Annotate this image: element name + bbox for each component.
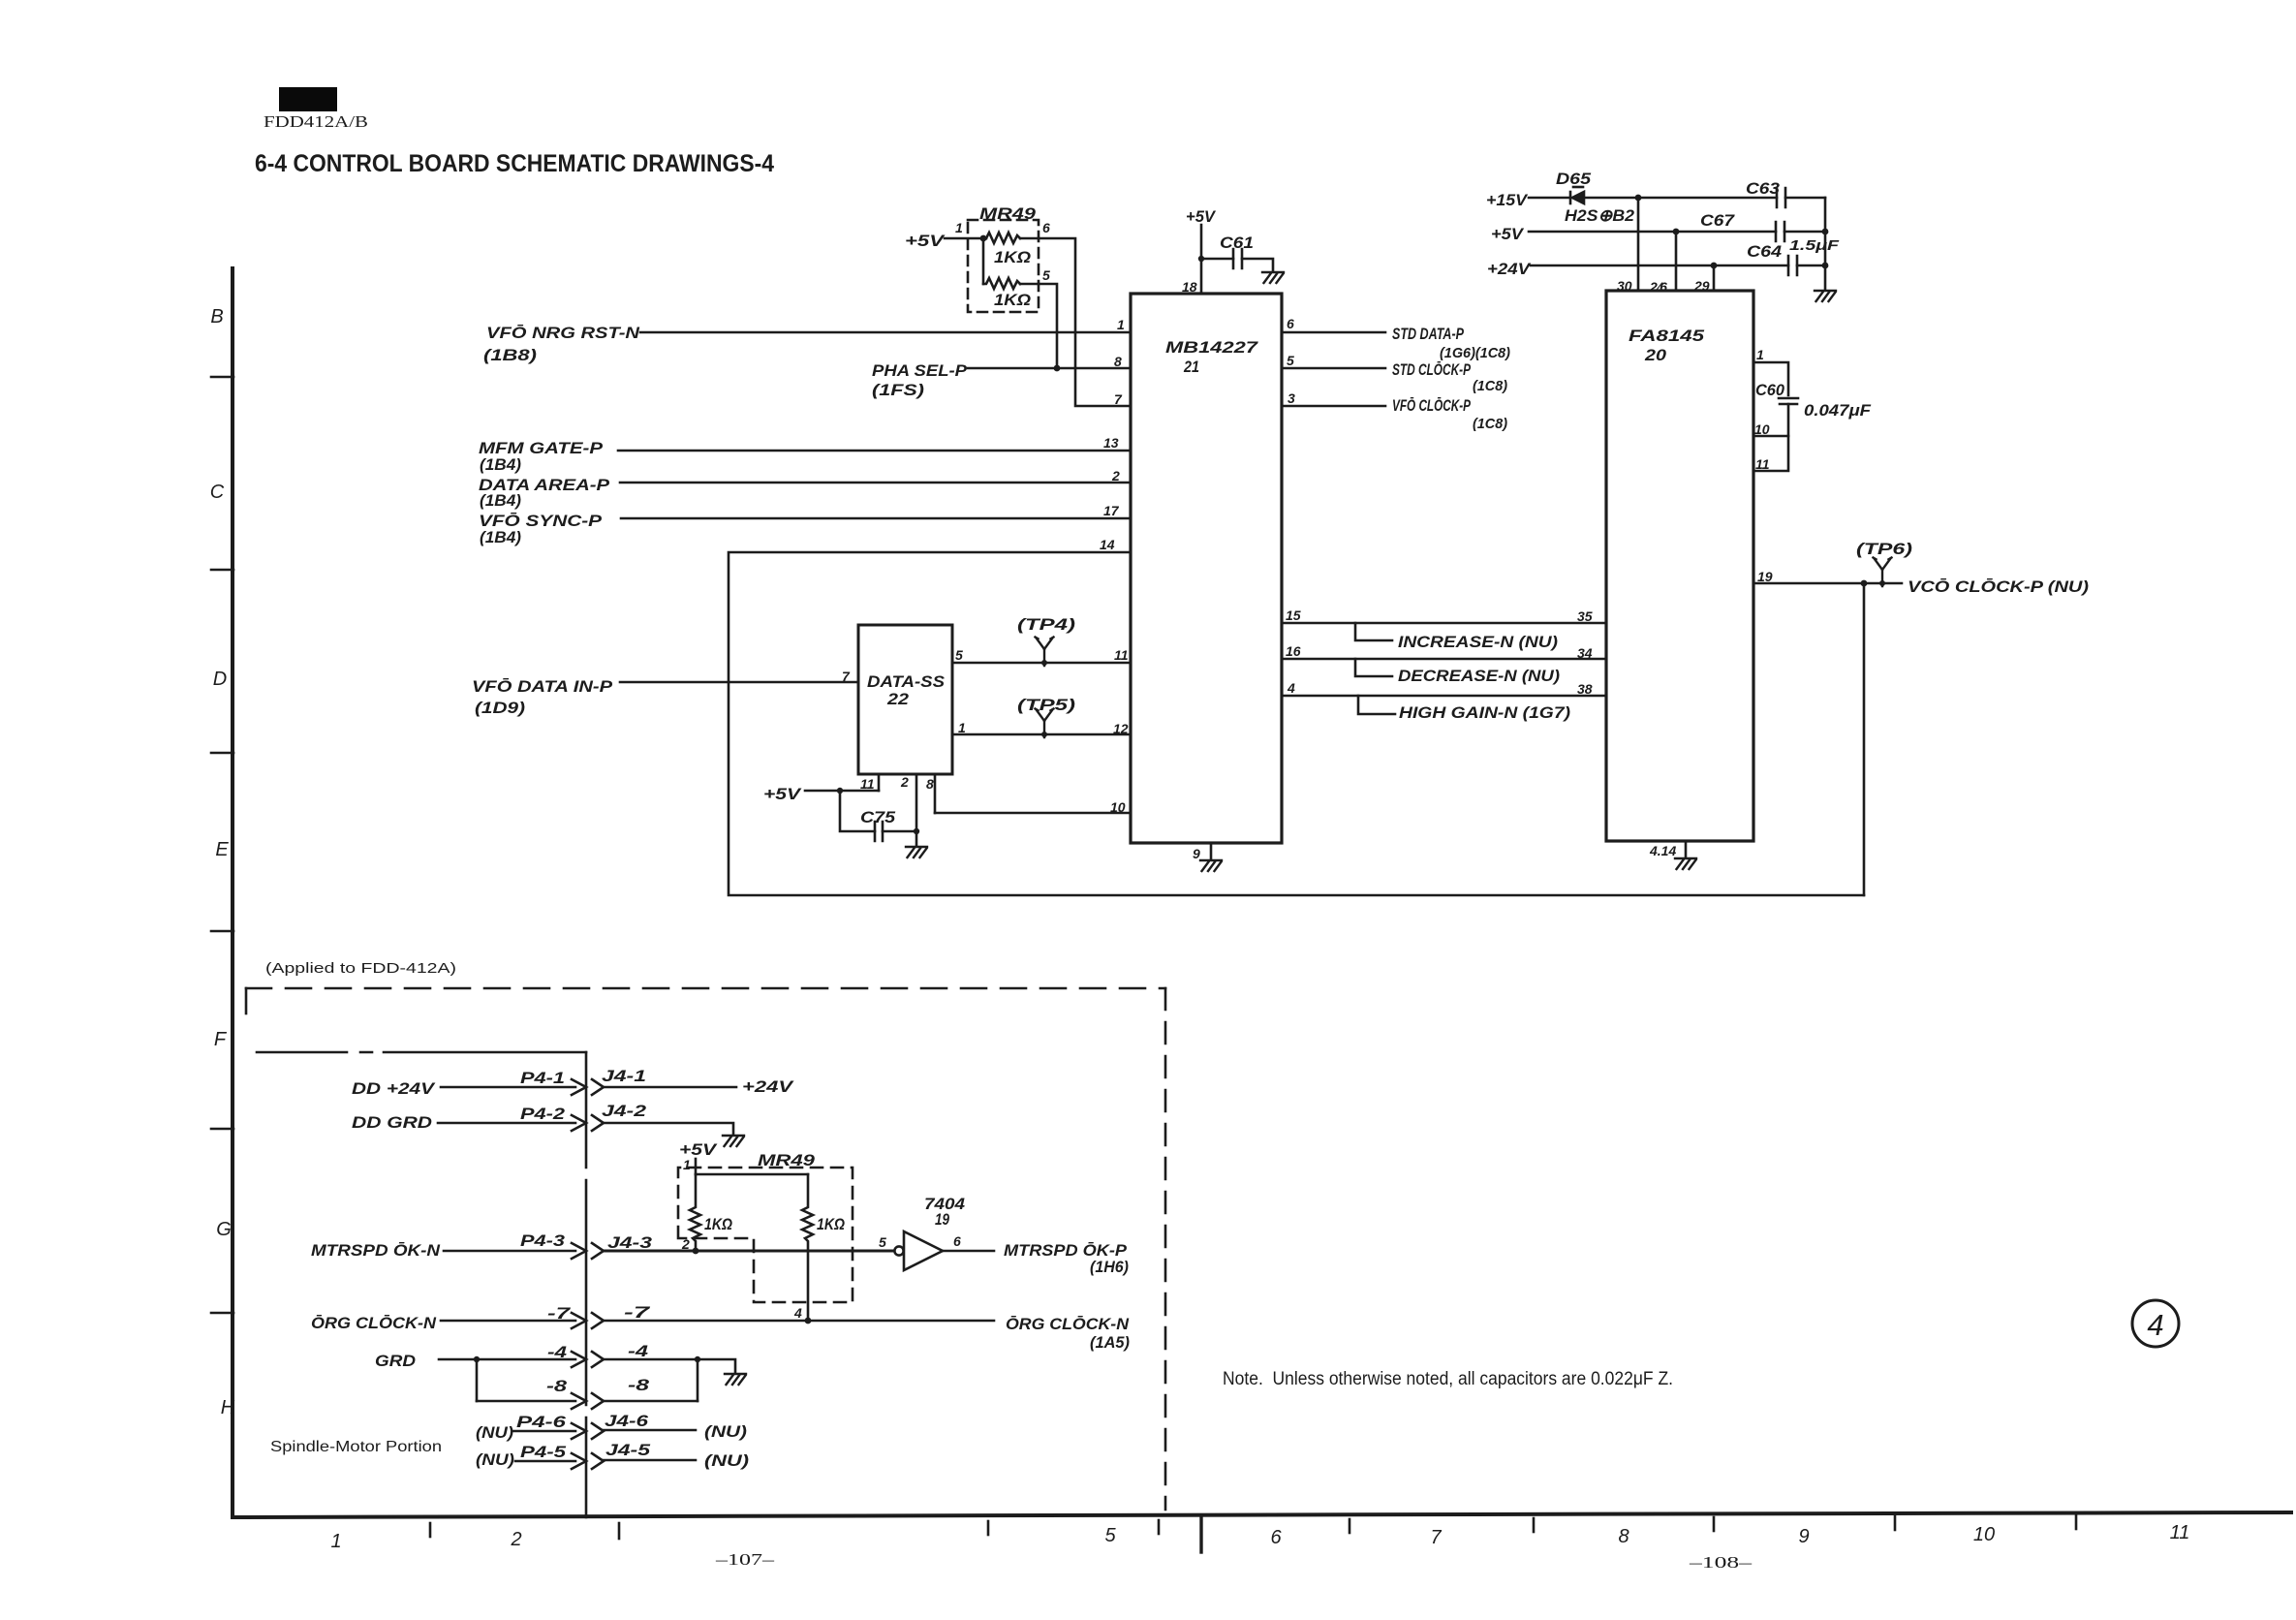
arrowhead P4-1 [572,1079,586,1095]
svg-text:11: 11 [1755,456,1770,472]
svg-text:5: 5 [1287,353,1294,368]
ground at FA8145 [1675,858,1696,869]
svg-text:C67: C67 [1700,211,1736,230]
svg-text:1.5μF: 1.5μF [1789,237,1840,254]
svg-text:INCREASE-N (NU): INCREASE-N (NU) [1398,633,1558,651]
svg-text:B: B [210,306,223,327]
chevron J4-6 [592,1423,604,1439]
chevron J4-2 [592,1115,604,1131]
svg-text:(NU): (NU) [476,1423,513,1442]
ground at C61 [1262,272,1284,283]
wire junction drop to R2 [982,238,985,284]
svg-text:6: 6 [953,1233,961,1249]
svg-text:+15V: +15V [1486,191,1529,209]
left border tick 1 [211,376,233,379]
svg-text:16: 16 [1286,643,1301,659]
svg-text:-7: -7 [624,1303,652,1322]
svg-text:1: 1 [955,220,963,235]
chain boundary line at F [257,1051,586,1054]
wire -8 row J side [604,1400,698,1403]
wire VFO DATA IN-P to DATA-SS pin 7 [620,681,858,684]
svg-text:10: 10 [1754,421,1770,437]
resistor network MR49 (top) dashed outline [968,220,1039,312]
resistor R3 1K (left, vertical) [690,1174,700,1251]
DATA-SS pin 8 stub [934,774,937,813]
arrowhead -8 [572,1393,586,1409]
junction dot C61 tap [1198,256,1204,262]
junction dot pin 2/6 [1673,229,1680,235]
bottom border tick f [1533,1518,1536,1532]
svg-text:1: 1 [1756,347,1764,362]
svg-text:6: 6 [1042,220,1050,235]
arrowhead P4-6 [572,1423,586,1439]
wire pin15 to FA8145 pin35 [1282,622,1606,625]
svg-text:DECREASE-N (NU): DECREASE-N (NU) [1398,667,1560,685]
svg-text:G: G [216,1219,232,1240]
svg-text:(NU): (NU) [704,1422,747,1441]
capacitor C61 plates [1233,249,1242,268]
test point TP6 [1874,558,1892,587]
wire +5V to pin 18 [1200,225,1203,294]
inverter input bubble [894,1246,903,1255]
junction dot +5V/C75 [837,788,843,794]
resistor R1 1K (top, horizontal) [986,233,1020,243]
chevron J4-3 [592,1243,604,1259]
svg-text:E: E [215,839,229,860]
connector interface line vertical [585,1052,588,1517]
svg-text:GRD: GRD [375,1352,416,1370]
junction dot TP6 [1879,580,1885,586]
svg-text:-8: -8 [546,1377,568,1395]
capacitor C61 wire [1201,259,1273,270]
diode D65 cathode bar [1569,192,1572,203]
svg-text:4: 4 [1287,680,1295,696]
svg-text:1: 1 [330,1531,341,1552]
wire DATA-SS pin 1 to MB pin 12 [952,733,1131,736]
svg-text:(TP5): (TP5) [1017,696,1075,714]
svg-text:(1C8): (1C8) [1473,378,1507,394]
diode polarity tick [1573,186,1583,189]
arrowhead -7 [572,1313,586,1328]
ground at C75 [906,847,927,857]
bottom border tick e [1349,1519,1351,1533]
svg-text:H2S⊕B2: H2S⊕B2 [1565,206,1635,225]
svg-text:FDD412A/B: FDD412A/B [264,112,368,131]
svg-text:C61: C61 [1220,234,1254,252]
wire DD +24V row P side [441,1086,575,1089]
svg-text:C64: C64 [1747,242,1783,261]
bottom border tick a [429,1523,432,1537]
svg-text:9: 9 [1798,1526,1809,1547]
svg-text:6: 6 [1287,316,1294,331]
svg-text:(1B4): (1B4) [480,455,521,474]
wire resistor R2 to pin 5 [1020,283,1039,286]
wire GRD row P side [439,1358,575,1361]
svg-text:ŌRG CLŌCK-N: ŌRG CLŌCK-N [1006,1315,1130,1333]
wire STD CLOCK-P from pin 5 [1282,367,1385,370]
svg-text:9: 9 [1193,846,1200,861]
dashed enclosure top edge [246,987,1165,990]
ground at J4-2 [723,1136,744,1146]
svg-text:(1B4): (1B4) [480,528,521,546]
wire -4 row J side [604,1359,735,1372]
svg-text:20: 20 [1644,346,1667,364]
svg-text:MR49: MR49 [758,1151,816,1169]
left border tick 2 [211,569,233,572]
wire P4-5 row P side [515,1460,575,1463]
svg-text:C63: C63 [1746,179,1781,198]
ground at right bus [1815,291,1836,301]
svg-text:8: 8 [926,776,934,792]
bottom border tick c [987,1521,990,1535]
wire J4-2 to ground [604,1123,733,1134]
test point TP5 [1036,709,1054,738]
junction dot J side branch [695,1356,700,1362]
bottom border tick i [2075,1515,2078,1529]
wire MTRSPD row P side [444,1250,575,1253]
svg-text:C: C [210,482,225,503]
svg-text:MTRSPD ŌK-N: MTRSPD ŌK-N [311,1241,441,1260]
dashed enclosure right edge [1164,988,1167,1510]
svg-text:P4-6: P4-6 [516,1413,567,1431]
svg-text:4: 4 [793,1305,802,1321]
svg-text:STD CLŌCK-P: STD CLŌCK-P [1392,360,1471,379]
resistor R4 1K (right, vertical) [802,1174,813,1321]
svg-text:VCŌ CLŌCK-P (NU): VCŌ CLŌCK-P (NU) [1908,577,2089,596]
page split divider [1199,1516,1202,1552]
svg-text:13: 13 [1103,435,1119,451]
bottom border tick g [1713,1517,1716,1531]
test point TP4 [1036,638,1054,667]
svg-text:21: 21 [1183,358,1199,376]
svg-text:P4-1: P4-1 [520,1069,565,1087]
svg-text:VFŌ CLŌCK-P: VFŌ CLŌCK-P [1392,396,1471,415]
arrowhead P4-3 [572,1243,586,1259]
svg-text:J4-2: J4-2 [602,1102,647,1120]
svg-text:(TP4): (TP4) [1017,615,1075,634]
wire VFO CLOCK-P from pin 3 [1282,405,1385,408]
junction dot at pin19 wire [1861,580,1868,587]
wire DD GRD row P side [438,1122,575,1125]
svg-text:5: 5 [879,1234,886,1250]
svg-text:VFŌ DATA IN-P: VFŌ DATA IN-P [472,677,613,696]
wire pin 19 to VCO CLOCK-P [1753,582,1902,585]
wire pin 6 net to MB14227 pin 7 [1039,238,1131,406]
sheet number circle [2132,1300,2179,1347]
svg-text:(1H6): (1H6) [1090,1258,1129,1276]
wire +5V down to C75 [840,791,916,831]
arrowhead -4 [572,1352,586,1367]
wire MFM GATE-P to MB14227 pin 13 [618,450,1131,452]
wire ORG row P side [441,1320,575,1323]
svg-text:19: 19 [935,1210,949,1229]
wire pin 8 to MB pin 10 [935,812,1131,815]
chevron -7 [592,1313,604,1328]
svg-text:-8: -8 [628,1376,650,1394]
svg-text:DD +24V: DD +24V [352,1079,436,1098]
wire pin 10 loop to pin 11 [1753,436,1788,471]
svg-text:–107–: –107– [715,1550,775,1569]
svg-text:+24V: +24V [1487,260,1532,278]
right bus vertical to ground [1824,198,1827,289]
svg-text:H: H [221,1397,235,1418]
svg-text:(1B8): (1B8) [483,346,537,364]
svg-text:0.047μF: 0.047μF [1804,401,1872,420]
svg-text:11: 11 [2170,1522,2190,1543]
svg-text:1: 1 [958,720,966,735]
svg-text:11: 11 [860,776,875,792]
svg-text:8: 8 [1114,354,1122,369]
HIGH GAIN-N stub [1358,696,1395,714]
junction dot bus +24V [1822,263,1829,269]
svg-text:P4-3: P4-3 [520,1231,566,1250]
svg-text:17: 17 [1103,503,1120,518]
wire ORG row J side [604,1320,994,1323]
svg-text:5: 5 [1104,1525,1116,1546]
page frame left border [231,268,234,1516]
svg-text:(1A5): (1A5) [1090,1333,1130,1352]
junction dot bus +5V [1822,229,1829,235]
junction dot GRD branch [474,1356,480,1362]
DECREASE-N stub [1355,659,1392,676]
svg-text:+5V: +5V [905,232,946,250]
bottom border tick d [1158,1520,1161,1534]
svg-text:(1G6)(1C8): (1G6)(1C8) [1440,345,1510,361]
svg-text:8: 8 [1618,1526,1629,1547]
wire VFO NRG RST-N to MB14227 pin 1 [640,331,1131,334]
svg-text:D65: D65 [1556,170,1592,188]
svg-text:(1D9): (1D9) [475,699,525,717]
chevron -8 [592,1393,604,1409]
capacitor C60 plates [1779,398,1798,404]
svg-text:6-4 CONTROL BOARD SCHEMATIC DR: 6-4 CONTROL BOARD SCHEMATIC DRAWINGS-4 [255,150,774,177]
wire J4-1 to +24V [604,1086,736,1089]
svg-text:2: 2 [900,774,909,790]
svg-text:7: 7 [1114,391,1123,407]
svg-text:7: 7 [842,669,851,684]
svg-text:4: 4 [2147,1308,2163,1342]
svg-text:D: D [213,669,227,690]
header redaction block [279,87,337,111]
wire VFO SYNC-P to MB14227 pin 17 [621,517,1131,520]
wire STD DATA-P from pin 6 [1282,331,1385,334]
wire DATA-SS pin 5 to MB pin 11 [952,662,1131,665]
wire +5V entry into MR49 [695,1159,698,1174]
svg-text:11: 11 [1114,647,1129,663]
svg-text:3: 3 [1288,390,1295,406]
junction dot TP5 [1041,732,1047,737]
junction dot TP4 [1041,660,1047,666]
bottom border tick b [618,1523,621,1539]
INCREASE-N stub [1355,623,1392,640]
svg-text:(1B4): (1B4) [480,491,521,510]
svg-text:+24V: +24V [742,1077,794,1096]
svg-text:38: 38 [1577,681,1593,697]
svg-text:FA8145: FA8145 [1629,327,1705,345]
DATA-SS pin 11 stub [878,774,881,791]
resistor network MR49 (lower) dashed outline [678,1168,853,1302]
svg-text:14: 14 [1100,537,1115,552]
wire C75 to ground [915,831,918,845]
svg-text:1: 1 [1117,317,1125,332]
svg-text:MR49: MR49 [979,204,1037,223]
svg-text:HIGH GAIN-N (1G7): HIGH GAIN-N (1G7) [1399,703,1570,722]
wire J4-5 row [604,1459,696,1462]
svg-text:(Applied to FDD-412A): (Applied to FDD-412A) [265,960,456,977]
svg-text:C60: C60 [1755,381,1785,399]
wire pin 1 to C60 [1753,362,1788,395]
svg-text:22: 22 [886,690,910,708]
wire -8 row P side [477,1400,575,1403]
junction dot at R1 input [980,235,987,242]
svg-text:DATA-SS: DATA-SS [867,672,946,691]
wire pin 2/6 from +5V [1675,232,1678,290]
+15V rail wire [1529,197,1777,200]
left border tick 3 [211,752,233,755]
wire VCO net down to bottom bus [1863,583,1866,895]
IC U22 DATA-SS box [858,625,952,774]
wire J4-3 to inverter input [604,1250,894,1253]
svg-text:J4-6: J4-6 [605,1412,649,1430]
left border tick 5 [211,1128,233,1131]
wire inverter output [943,1250,994,1253]
junction dot pin30 [1635,195,1642,202]
svg-text:5: 5 [1042,267,1050,283]
svg-text:+5V: +5V [763,785,802,803]
wire pin 30 from +15V [1637,198,1640,290]
outer net box pin14 to bottom bus [729,552,1864,895]
+5V rail wire [1529,231,1825,234]
wire pin 29 from +24V [1713,265,1716,290]
svg-text:–108–: –108– [1688,1553,1752,1572]
svg-text:F: F [214,1029,228,1050]
page frame bottom border [233,1512,2291,1517]
svg-text:-4: -4 [547,1343,568,1361]
svg-text:1: 1 [683,1157,691,1172]
left border tick 6 [211,1312,233,1315]
junction dot pin5 net on PHA SEL-P wire [1054,365,1061,372]
IC U20 FA8145 box [1606,291,1753,841]
svg-text:10: 10 [1973,1524,1995,1545]
+24V rail wire [1531,265,1825,267]
svg-text:ŌRG CLŌCK-N: ŌRG CLŌCK-N [311,1314,437,1332]
DATA-SS pin 2 stub [915,774,918,831]
svg-text:-4: -4 [628,1342,649,1360]
capacitor C67 plates [1776,222,1784,241]
svg-text:Spindle-Motor Portion: Spindle-Motor Portion [270,1439,442,1455]
junction dot R4 on ORG wire [805,1318,812,1324]
junction dot pin2/C75 [914,828,919,834]
IC U21 MB14227 box [1131,294,1282,843]
svg-text:Note. Unless otherwise noted,: Note. Unless otherwise noted, all capaci… [1223,1369,1673,1389]
wire resistor R1 to pin 6 [1020,237,1039,240]
svg-text:10: 10 [1110,799,1126,815]
wire DATA AREA-P to MB14227 pin 2 [620,482,1131,484]
wire C60 to pin 10 [1753,404,1788,436]
svg-text:-7: -7 [547,1304,572,1323]
J side -4/-8 branch vertical [697,1359,699,1401]
wire P4-6 row P side [513,1430,575,1433]
chevron J4-5 [592,1453,604,1469]
svg-text:15: 15 [1286,607,1301,623]
svg-text:12: 12 [1113,721,1129,736]
svg-text:4.14: 4.14 [1649,843,1676,858]
wire pin16 to FA8145 pin34 [1282,658,1606,661]
svg-text:19: 19 [1757,569,1773,584]
arrowhead P4-5 [572,1453,586,1469]
svg-text:(1C8): (1C8) [1473,416,1507,432]
wire C63 to right bus [1785,197,1825,200]
svg-text:(TP6): (TP6) [1856,540,1912,558]
svg-text:5: 5 [955,647,963,663]
svg-text:DD GRD: DD GRD [352,1113,432,1132]
wire +5V to pin 11 [805,790,879,793]
resistor R2 1K (lower, horizontal) [983,278,1020,289]
wire pin4 to FA8145 pin38 [1282,695,1606,698]
svg-text:1KΩ: 1KΩ [704,1215,732,1233]
chevron -4 [592,1352,604,1367]
svg-text:2: 2 [1111,468,1120,483]
svg-text:+5V: +5V [1186,207,1217,226]
svg-text:(NU): (NU) [476,1450,514,1469]
svg-text:J4-1: J4-1 [602,1067,646,1085]
svg-text:(1FS): (1FS) [872,381,924,399]
svg-text:PHA SEL-P: PHA SEL-P [872,361,968,380]
inverter U19 7404 triangle [904,1231,943,1270]
MB14227 pin 9 ground stub [1210,843,1213,858]
diode D65 [1572,192,1584,203]
svg-text:18: 18 [1182,279,1197,295]
svg-text:+5V: +5V [1491,225,1525,243]
ground at -4 row [725,1374,746,1385]
svg-text:P4-2: P4-2 [520,1105,566,1123]
svg-text:35: 35 [1577,608,1593,624]
arrowhead P4-2 [572,1115,586,1131]
svg-text:J4-5: J4-5 [605,1441,651,1459]
svg-text:MB14227: MB14227 [1165,338,1259,357]
svg-text:1KΩ: 1KΩ [994,291,1031,309]
wire pin 5 net down to PHA SEL-P net [1039,284,1057,368]
FA8145 ground pin 4.14 stub [1685,841,1688,857]
wire +5V into MR49 pin 1 [945,237,986,240]
svg-text:(NU): (NU) [704,1451,749,1470]
capacitor C63 plates [1777,188,1785,207]
bottom border tick h [1894,1516,1897,1530]
wire PHA SEL-P to MB14227 pin 8 [968,367,1131,370]
P side -4/-8 branch vertical [476,1359,479,1401]
svg-text:6: 6 [1270,1527,1282,1548]
svg-text:STD DATA-P: STD DATA-P [1392,325,1464,343]
dashed enclosure corner stub [245,988,248,1013]
capacitor C75 plates [875,822,883,841]
ground at MB14227 pin 9 [1200,860,1222,871]
wire J4-6 row [604,1429,696,1432]
capacitor C64 plates [1788,256,1797,275]
svg-text:VFŌ NRG RST-N: VFŌ NRG RST-N [486,324,640,342]
left border tick 4 [211,930,233,933]
svg-text:2: 2 [510,1529,521,1550]
svg-text:1KΩ: 1KΩ [994,248,1031,266]
chevron J4-1 [592,1079,604,1095]
svg-text:C75: C75 [860,808,896,826]
svg-text:1KΩ: 1KΩ [817,1215,845,1233]
junction dot pin29 [1711,263,1718,269]
svg-text:P4-5: P4-5 [520,1443,567,1461]
junction dot R3 on J4-3 wire [693,1248,699,1255]
wire internal top rail [696,1173,808,1176]
svg-text:J4-3: J4-3 [607,1233,653,1252]
svg-text:7: 7 [1430,1527,1442,1548]
